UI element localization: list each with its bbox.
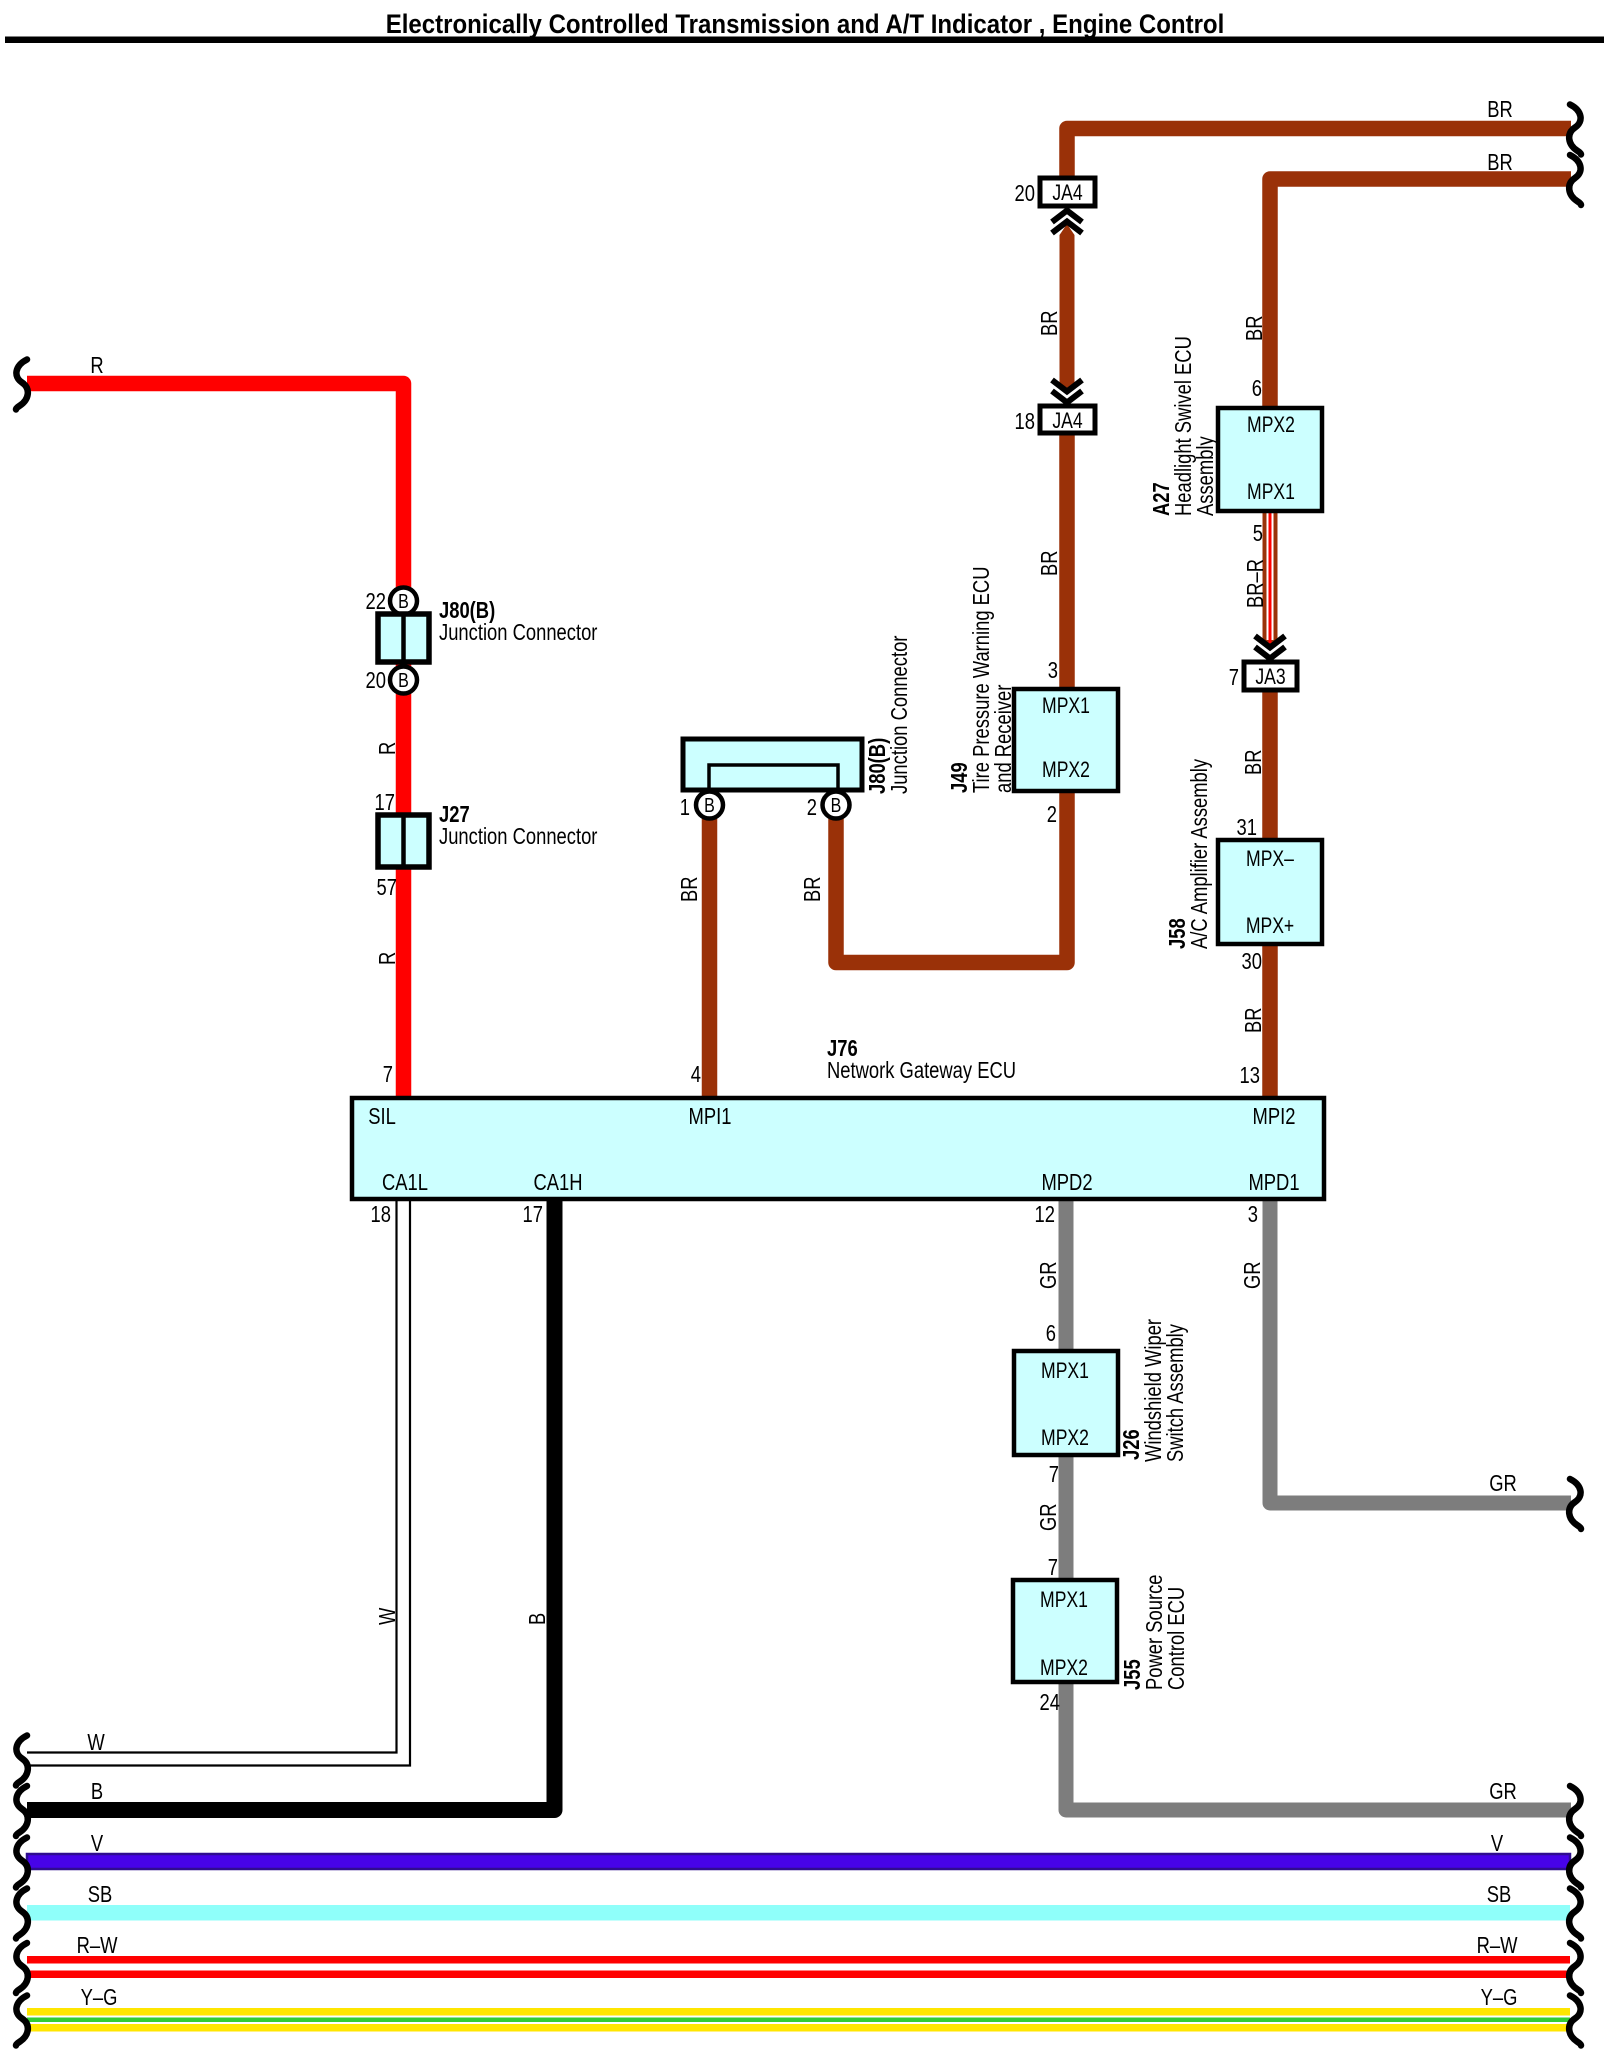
- svg-text:B: B: [831, 794, 842, 816]
- svg-text:3: 3: [1048, 658, 1058, 683]
- svg-text:CA1H: CA1H: [533, 1170, 582, 1195]
- wire B: J76 CA1H pin 17 to left edge: [27, 1199, 555, 1810]
- svg-text:20: 20: [366, 668, 386, 693]
- svg-text:Junction Connector: Junction Connector: [439, 620, 597, 645]
- break symbol, wire SB right end: [1569, 1889, 1581, 1939]
- svg-text:B: B: [398, 669, 409, 691]
- break symbol, wire V right end: [1569, 1838, 1581, 1888]
- svg-text:MPX–: MPX–: [1246, 847, 1295, 871]
- svg-text:MPD1: MPD1: [1248, 1170, 1299, 1195]
- svg-text:18: 18: [371, 1202, 391, 1227]
- svg-text:B: B: [398, 590, 409, 612]
- break symbol, wire V left end: [16, 1838, 28, 1888]
- wire W: J76 CA1L pin 18 to left edge (white wire, double outline): [27, 1199, 397, 1753]
- svg-text:JA3: JA3: [1255, 665, 1285, 689]
- svg-text:3: 3: [1248, 1202, 1258, 1227]
- wire GR: J76 MPD1 pin 3 to right edge: [1270, 1199, 1571, 1503]
- svg-text:Assembly: Assembly: [1193, 436, 1218, 516]
- svg-text:W: W: [375, 1607, 400, 1625]
- svg-text:MPD2: MPD2: [1041, 1170, 1092, 1195]
- ECU J76 Network Gateway ECU: [352, 1098, 1324, 1199]
- switch J26 Windshield Wiper Switch Assembly: [1014, 1351, 1118, 1455]
- svg-text:MPI1: MPI1: [689, 1104, 732, 1129]
- wire BR: right edge to JA4 connector pin 20: [1067, 129, 1571, 183]
- svg-text:13: 13: [1240, 1063, 1260, 1088]
- break symbol, wire R left end: [16, 360, 28, 410]
- svg-text:2: 2: [1047, 802, 1057, 827]
- svg-text:Electronically Controlled Tran: Electronically Controlled Transmission a…: [386, 10, 1225, 40]
- svg-text:BR: BR: [1241, 749, 1266, 775]
- svg-text:Junction Connector: Junction Connector: [439, 824, 597, 849]
- svg-text:GR: GR: [1240, 1261, 1265, 1289]
- wire BR-R: A27 MPX1 pin 5 to JA3 (brown w/ red stripe): [1263, 508, 1278, 647]
- break symbol, wire B left end: [16, 1786, 28, 1836]
- break symbol, wire R-W right end: [1569, 1943, 1581, 1993]
- svg-text:BR: BR: [1487, 97, 1513, 122]
- wire R-W: [27, 1956, 1570, 1964]
- junction connector J27 (pins 17/57): [378, 815, 429, 867]
- svg-text:SIL: SIL: [368, 1104, 396, 1129]
- svg-text:17: 17: [523, 1202, 543, 1227]
- connector JA4 (pin 20): [1040, 178, 1095, 206]
- break symbol, wire GR J55 right end: [1569, 1786, 1581, 1836]
- svg-text:BR: BR: [1487, 150, 1513, 175]
- svg-text:1: 1: [680, 795, 690, 820]
- break symbol, wire BR 1 right end: [1569, 105, 1581, 155]
- junction connector J80(B) (left, pins 22/20): [390, 588, 417, 615]
- svg-text:7: 7: [1048, 1555, 1058, 1580]
- title underline bar: [5, 37, 1604, 44]
- connector JA4 (pin 18): [1040, 406, 1095, 433]
- svg-text:JA4: JA4: [1052, 181, 1082, 205]
- svg-text:BR: BR: [1037, 310, 1062, 336]
- svg-text:R–W: R–W: [1477, 1933, 1518, 1958]
- svg-text:Control ECU: Control ECU: [1164, 1587, 1189, 1690]
- svg-text:R: R: [375, 952, 400, 965]
- break symbol, wire BR 2 right end: [1569, 155, 1581, 205]
- svg-text:GR: GR: [1489, 1779, 1517, 1804]
- svg-text:V: V: [1491, 1831, 1503, 1856]
- svg-text:R: R: [90, 353, 103, 378]
- svg-text:MPX2: MPX2: [1247, 413, 1295, 437]
- svg-text:17: 17: [375, 790, 395, 815]
- svg-text:6: 6: [1252, 376, 1262, 401]
- svg-text:and Receiver: and Receiver: [991, 685, 1016, 793]
- svg-text:22: 22: [366, 589, 386, 614]
- svg-text:MPX1: MPX1: [1247, 480, 1295, 504]
- svg-text:7: 7: [1049, 1462, 1059, 1487]
- svg-text:MPX2: MPX2: [1041, 1426, 1089, 1450]
- svg-text:30: 30: [1242, 949, 1262, 974]
- svg-text:R–W: R–W: [77, 1933, 118, 1958]
- svg-text:V: V: [91, 1831, 103, 1856]
- svg-text:7: 7: [383, 1062, 393, 1087]
- break symbol, wire SB left end: [16, 1889, 28, 1939]
- wire BR: JA4 pin 18 to J49 MPX1 pin 3: [1059, 430, 1075, 691]
- svg-text:W: W: [87, 1730, 105, 1755]
- svg-text:B: B: [525, 1613, 550, 1625]
- wire Y-G: [27, 2008, 1570, 2016]
- ECU A27 Headlight Swivel ECU Assembly: [1218, 408, 1322, 511]
- svg-text:Switch Assembly: Switch Assembly: [1163, 1324, 1188, 1462]
- connector arrows above JA3 (pointing down): [1255, 636, 1285, 648]
- svg-text:GR: GR: [1036, 1503, 1061, 1531]
- break symbol, wire Y-G left end: [16, 1996, 28, 2046]
- svg-text:31: 31: [1237, 815, 1257, 840]
- svg-text:12: 12: [1035, 1202, 1055, 1227]
- svg-text:R: R: [375, 742, 400, 755]
- connector arrows above JA4 pin 18 (pointing down): [1052, 380, 1082, 392]
- svg-text:4: 4: [691, 1062, 701, 1087]
- svg-text:BR: BR: [1037, 550, 1062, 576]
- svg-text:BR–R: BR–R: [1243, 559, 1268, 608]
- wire V: [27, 1854, 1570, 1869]
- wire GR: J76 MPD2 pin 12 through J26, J55 to right edge: [1066, 1199, 1571, 1810]
- svg-text:Junction Connector: Junction Connector: [887, 636, 912, 794]
- svg-text:2: 2: [807, 795, 817, 820]
- svg-text:GR: GR: [1489, 1471, 1517, 1496]
- svg-text:MPX1: MPX1: [1041, 1359, 1089, 1383]
- svg-text:7: 7: [1229, 665, 1239, 690]
- svg-text:CA1L: CA1L: [382, 1170, 428, 1195]
- wire BR: J58 MPX+ pin 30 to J76 MPI2 pin 13: [1262, 942, 1278, 1100]
- svg-text:20: 20: [1015, 181, 1035, 206]
- connector JA3 (pin 7): [1244, 662, 1297, 690]
- wire BR: right edge to A27 MPX2 pin 6: [1270, 179, 1571, 412]
- break symbol, wire R-W left end: [16, 1943, 28, 1993]
- svg-text:MPX2: MPX2: [1040, 1656, 1088, 1680]
- svg-text:MPX+: MPX+: [1246, 914, 1294, 938]
- svg-text:18: 18: [1015, 409, 1035, 434]
- svg-text:BR: BR: [800, 876, 825, 902]
- junction connector J80(B) (middle, pins 1/2): [683, 739, 862, 790]
- wire BR: J80(B) pin 2 to J49 MPX2 pin 2 (U-shape): [836, 791, 1067, 963]
- ECU J49 Tire Pressure Warning ECU and Receiver: [1014, 689, 1118, 791]
- break symbol, wire W left end: [16, 1736, 28, 1786]
- svg-text:GR: GR: [1036, 1261, 1061, 1289]
- wire SB: [27, 1905, 1570, 1921]
- svg-text:JA4: JA4: [1052, 409, 1082, 433]
- svg-text:Y–G: Y–G: [81, 1985, 118, 2010]
- wire R: left edge to J76 SIL pin 7: [27, 384, 404, 1101]
- svg-text:B: B: [704, 794, 715, 816]
- wire BR: JA3 to J58 MPX- pin 31: [1262, 664, 1278, 842]
- svg-text:SB: SB: [1487, 1882, 1512, 1907]
- svg-text:6: 6: [1046, 1321, 1056, 1346]
- svg-text:B: B: [91, 1779, 103, 1804]
- svg-text:BR: BR: [677, 876, 702, 902]
- svg-text:24: 24: [1040, 1690, 1060, 1715]
- connector arrows below JA4 pin 20 (pointing up): [1052, 211, 1082, 223]
- svg-text:MPI2: MPI2: [1253, 1104, 1296, 1129]
- svg-text:57: 57: [377, 875, 397, 900]
- break symbol, wire GR MPD1 right end: [1569, 1479, 1581, 1529]
- svg-text:5: 5: [1253, 521, 1263, 546]
- svg-text:BR: BR: [1241, 1007, 1266, 1033]
- svg-text:MPX1: MPX1: [1040, 1588, 1088, 1612]
- svg-text:A/C Amplifier Assembly: A/C Amplifier Assembly: [1187, 758, 1212, 949]
- svg-text:MPX2: MPX2: [1042, 758, 1090, 782]
- svg-text:MPX1: MPX1: [1042, 694, 1090, 718]
- svg-text:Network Gateway ECU: Network Gateway ECU: [827, 1058, 1016, 1083]
- wire BR: J80(B) pin 1 to J76 MPI1 pin 4: [702, 818, 718, 1100]
- svg-text:Y–G: Y–G: [1481, 1985, 1518, 2010]
- ECU J58 A/C Amplifier Assembly: [1218, 840, 1322, 944]
- svg-text:SB: SB: [88, 1882, 113, 1907]
- wire BR: JA4 pin 18 arrow segment (pointed both ends): [1060, 224, 1075, 391]
- break symbol, wire Y-G right end: [1569, 1996, 1581, 2046]
- ECU J55 Power Source Control ECU: [1013, 1580, 1117, 1682]
- svg-text:BR: BR: [1242, 315, 1267, 341]
